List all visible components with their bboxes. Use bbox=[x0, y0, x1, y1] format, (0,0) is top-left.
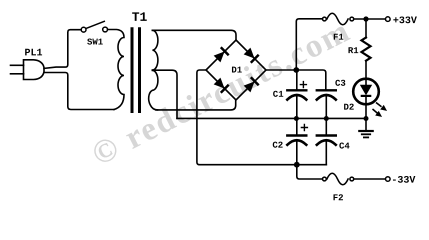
wire secondary bottom to bridge bottom (node AC2) bbox=[156, 100, 236, 110]
bridge diode SE bbox=[243, 77, 259, 93]
capacitor C3 curved plate bbox=[317, 95, 336, 100]
svg-text:R1: R1 bbox=[348, 46, 359, 56]
junction dot LED ground bbox=[364, 116, 369, 121]
wire plug bottom to primary bottom bbox=[44, 73, 114, 110]
LED D2 circle bbox=[353, 79, 379, 105]
ground wire bbox=[365, 118, 367, 131]
capacitor C1 bottom wire bbox=[296, 96, 298, 118]
switch SW1 contact left bbox=[81, 27, 86, 32]
wire plus node up to fuse rail bbox=[296, 19, 322, 70]
wire C1 top bbox=[296, 70, 298, 89]
capacitor C2 curved plate bbox=[287, 140, 306, 145]
LED D2 arrow 1 bbox=[373, 103, 387, 117]
transformer T1 core bar left bbox=[131, 29, 134, 112]
capacitor C1 curved plate bbox=[287, 95, 306, 100]
svg-text:-33V: -33V bbox=[391, 176, 415, 187]
capacitor C3 plate bbox=[317, 89, 336, 91]
capacitor C1 plus sign bbox=[300, 82, 306, 88]
LED D2 wire below bbox=[365, 97, 367, 119]
resistor R1 bbox=[365, 19, 367, 38]
svg-text:+33V: +33V bbox=[393, 16, 417, 27]
bridge diode NE bbox=[243, 47, 259, 63]
transformer T1 core bar right bbox=[138, 29, 141, 112]
capacitor C2 plate bbox=[287, 134, 306, 136]
wire fuse F1 to +33V terminal bbox=[354, 18, 385, 20]
junction dot plus node bbox=[293, 67, 299, 73]
plug PL1 body bbox=[24, 60, 45, 80]
transformer T1 primary winding bbox=[108, 30, 124, 110]
transformer T1 secondary winding lower bbox=[149, 70, 158, 110]
fuse F1 left contact bbox=[323, 17, 327, 21]
svg-text:C4: C4 bbox=[339, 141, 350, 151]
wire fuse F2 to -33V terminal bbox=[354, 178, 385, 180]
LED D2 arrow 2 bbox=[373, 109, 378, 113]
bridge diode SW bbox=[213, 77, 229, 93]
svg-text:F2: F2 bbox=[333, 193, 344, 203]
plug PL1 prong 2 bbox=[11, 73, 24, 75]
ground bar 3 bbox=[364, 136, 368, 138]
svg-text:F1: F1 bbox=[333, 33, 344, 43]
bridge rectifier D1 diamond bbox=[206, 40, 266, 100]
wire bridge left corner to negative rail (node V-) bbox=[197, 70, 326, 165]
fuse F1 right contact bbox=[350, 17, 354, 21]
wire R1 to LED bbox=[365, 61, 367, 86]
LED D2 triangle bbox=[361, 85, 372, 94]
svg-text:PL1: PL1 bbox=[24, 48, 42, 59]
transformer T1 secondary winding upper bbox=[152, 30, 158, 70]
svg-text:D2: D2 bbox=[343, 103, 354, 113]
capacitor C3 bottom wire bbox=[325, 96, 327, 118]
wire secondary center tap to ground rail bbox=[152, 70, 177, 118]
terminal -33V bbox=[386, 177, 391, 182]
capacitor C1 plate bbox=[287, 89, 306, 91]
svg-text:T1: T1 bbox=[132, 10, 148, 25]
svg-text:C1: C1 bbox=[273, 90, 284, 100]
terminal +33V bbox=[386, 17, 391, 22]
junction dot F1/R1 bbox=[363, 16, 368, 21]
wire secondary top to bridge top (node AC1) bbox=[152, 30, 236, 40]
capacitor C2 plus sign bbox=[301, 125, 307, 131]
fuse F2 right contact bbox=[350, 177, 354, 181]
wire minus node down to fuse F2 bbox=[297, 165, 323, 179]
fuse F2 left contact bbox=[323, 177, 327, 181]
junction dot C1 ground bbox=[294, 116, 299, 121]
plug PL1 prong 1 bbox=[11, 64, 24, 66]
svg-text:C3: C3 bbox=[335, 79, 346, 89]
wire bridge right corner to plus node bbox=[266, 70, 326, 89]
junction dot minus node bbox=[294, 162, 300, 168]
wire plug top to switch bbox=[44, 30, 81, 69]
svg-text:SW1: SW1 bbox=[87, 38, 104, 48]
capacitor C4 plate bbox=[317, 134, 336, 136]
svg-text:C2: C2 bbox=[272, 141, 283, 151]
switch SW1 lever bbox=[86, 21, 104, 28]
svg-text:D1: D1 bbox=[231, 66, 242, 76]
capacitor C2 bottom wire bbox=[296, 141, 298, 164]
ground bar 2 bbox=[362, 133, 370, 135]
switch SW1 contact right bbox=[103, 27, 108, 32]
LED D2 cathode bar bbox=[361, 95, 372, 97]
fuse F2 element bbox=[327, 173, 348, 185]
capacitor C2 top wire bbox=[296, 118, 298, 135]
ground bar 1 bbox=[359, 130, 372, 132]
capacitor C4 curved plate bbox=[317, 140, 336, 145]
bridge diode NW bbox=[213, 47, 229, 63]
capacitor C4 bottom wire bbox=[325, 141, 327, 164]
ground rail (center tap net) bbox=[177, 117, 366, 119]
fuse F1 element bbox=[327, 13, 348, 25]
junction dot C3 ground bbox=[324, 116, 329, 121]
capacitor C4 top wire bbox=[325, 118, 327, 135]
